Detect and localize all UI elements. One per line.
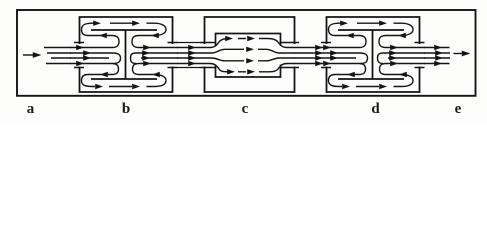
svg-text:a: a: [27, 101, 35, 117]
svg-text:e: e: [455, 101, 462, 117]
svg-text:d: d: [371, 101, 380, 117]
svg-text:c: c: [242, 101, 249, 117]
svg-text:b: b: [122, 101, 130, 117]
